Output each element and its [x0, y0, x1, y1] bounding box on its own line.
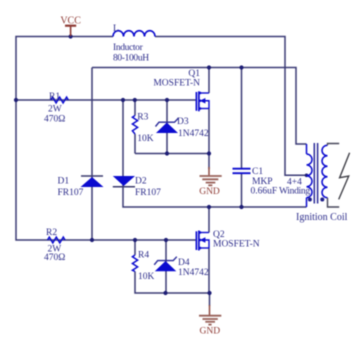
svg-text:R2: R2 [46, 228, 57, 238]
svg-text:MOSFET-N: MOSFET-N [153, 78, 200, 88]
svg-text:Ignition Coil: Ignition Coil [296, 212, 348, 223]
svg-text:R4: R4 [138, 251, 149, 261]
svg-text:D1: D1 [58, 177, 70, 187]
svg-text:470Ω: 470Ω [44, 253, 65, 263]
svg-text:MKP: MKP [252, 177, 273, 187]
svg-text:GND: GND [200, 327, 221, 337]
svg-text:D3: D3 [177, 117, 189, 127]
svg-text:10K: 10K [138, 272, 155, 282]
svg-text:VCC: VCC [60, 16, 81, 27]
svg-text:MOSFET-N: MOSFET-N [213, 239, 260, 249]
svg-text:FR107: FR107 [135, 188, 161, 198]
svg-text:1N4742: 1N4742 [178, 268, 209, 278]
svg-text:GND: GND [199, 187, 220, 197]
svg-text:1N4742: 1N4742 [178, 129, 209, 139]
svg-text:10K: 10K [137, 134, 154, 144]
svg-text:80-100uH: 80-100uH [113, 54, 149, 64]
svg-text:R1: R1 [49, 92, 60, 102]
svg-text:L: L [113, 24, 119, 34]
svg-text:D4: D4 [178, 258, 190, 268]
svg-text:0.66uF: 0.66uF [251, 187, 278, 197]
svg-text:R3: R3 [137, 112, 148, 122]
svg-text:D2: D2 [135, 177, 147, 187]
svg-text:FR107: FR107 [58, 188, 84, 198]
svg-text:2W: 2W [48, 104, 62, 114]
svg-text:Winding: Winding [279, 187, 310, 197]
svg-text:Inductor: Inductor [113, 43, 144, 53]
svg-text:C1: C1 [252, 167, 263, 177]
svg-text:470Ω: 470Ω [44, 114, 65, 124]
